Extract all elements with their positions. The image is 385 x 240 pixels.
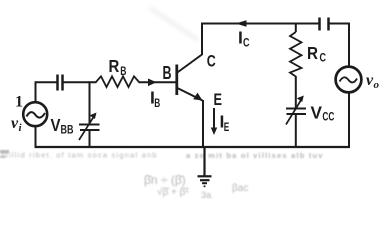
transistor emitter lead	[177, 88, 202, 101]
svg-text:B: B	[163, 63, 172, 83]
svg-text:E: E	[214, 90, 223, 109]
svg-text:BB: BB	[61, 123, 74, 137]
svg-text:1: 1	[15, 93, 23, 110]
resistor RB	[96, 76, 139, 87]
svg-text:R: R	[307, 43, 318, 63]
faint diagonal smudge top	[150, 8, 198, 40]
svg-text:i: i	[19, 122, 23, 134]
capacitor (output coupling, top right)	[320, 18, 329, 31]
faint formula blob	[144, 173, 248, 200]
svg-text:E: E	[224, 120, 230, 134]
svg-text:C: C	[320, 51, 327, 65]
transistor Q1 (NPN) bar	[175, 65, 178, 96]
label RB	[109, 56, 127, 78]
svg-text:C: C	[207, 52, 216, 71]
label vi	[11, 115, 23, 134]
svg-text:Gillid ribet. of tam soca sign: Gillid ribet. of tam soca signal anb	[2, 151, 158, 160]
AC source vi	[23, 102, 47, 126]
svg-text:B: B	[120, 64, 126, 78]
svg-text:V: V	[51, 115, 61, 135]
arrow IC on top rail	[236, 20, 247, 26]
svg-text:o: o	[374, 79, 380, 91]
resistor RC	[290, 32, 302, 77]
source VCC (supply symbol)	[286, 96, 306, 125]
svg-text:βac: βac	[232, 183, 248, 194]
wire: VCC to bottom rail	[295, 114, 297, 148]
svg-text:C: C	[243, 36, 250, 50]
label RC	[307, 43, 326, 65]
wire: right vertical lower	[348, 92, 350, 148]
label VBB	[51, 115, 74, 137]
wire: left vertical below source	[35, 126, 37, 148]
output source vo	[336, 67, 362, 93]
wire: RB to base with arrow IB	[139, 81, 177, 83]
wire: emitter vertical	[202, 100, 204, 148]
svg-text:3a.: 3a.	[201, 190, 214, 200]
emitter arrowhead	[193, 93, 202, 101]
wire: right vertical upper	[348, 23, 350, 68]
arrow IE	[213, 108, 215, 130]
svg-text:V: V	[311, 103, 323, 123]
label IE	[220, 112, 230, 135]
battery VBB plates	[79, 113, 100, 141]
label VCC	[311, 103, 335, 124]
wire: RC to VCC	[295, 76, 297, 108]
arrow IB on base wire	[148, 79, 157, 87]
wire: VBB branch lower	[89, 130, 91, 148]
wire: RC branch top	[295, 24, 297, 33]
svg-text:β̄n ÷ (β̄): β̄n ÷ (β̄)	[144, 173, 186, 187]
wire: top-left rail (source to coupling cap)	[36, 81, 58, 83]
ground	[198, 147, 212, 186]
wire: collector vertical	[201, 24, 203, 56]
wire: VBB branch upper	[89, 81, 91, 124]
label IB	[150, 88, 161, 111]
faint bleed-through text row	[2, 151, 324, 161]
wire: coupling cap to resistor RB	[63, 81, 97, 83]
wire: top rail right of capacitor	[329, 23, 349, 25]
coupling capacitor (input)	[58, 75, 63, 91]
svg-text:√β̄ + β̄²: √β̄ + β̄²	[157, 186, 189, 198]
svg-text:a ze mit ba ol villises alb tu: a ze mit ba ol villises alb tuv	[186, 151, 324, 160]
svg-text:B: B	[154, 96, 160, 110]
svg-text:R: R	[109, 56, 120, 76]
transistor collector lead	[177, 55, 202, 73]
wire: top rail	[201, 23, 319, 25]
left edge marks	[0, 150, 9, 158]
svg-text:CC: CC	[322, 110, 334, 124]
label vo	[366, 72, 380, 91]
label IC	[238, 28, 250, 50]
wire: bottom rail	[35, 146, 351, 148]
wire: left vertical above source	[35, 81, 37, 102]
